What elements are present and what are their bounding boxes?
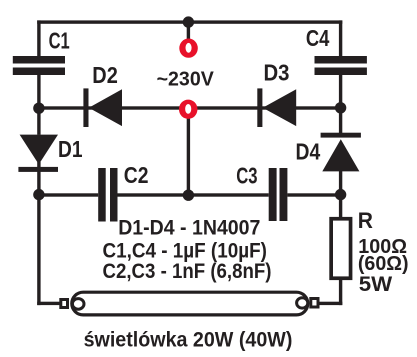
wire left rail lower segment: [37, 162, 40, 305]
node junction dot right middle: [335, 102, 346, 113]
svg-text:D3: D3: [264, 60, 290, 86]
wire row2 right segment: [287, 193, 342, 196]
wire middle row with D2 D3: [39, 106, 342, 109]
wire right rail middle segment: [339, 75, 342, 134]
svg-text:D1-D4 - 1N4007: D1-D4 - 1N4007: [118, 217, 260, 240]
svg-text:(60Ω): (60Ω): [358, 253, 409, 275]
wire middle column lower segment: [187, 109, 190, 197]
wire right rail D4 to resistor R: [339, 168, 342, 218]
wire right rail upper segment: [339, 20, 342, 56]
diode D2: [83, 88, 88, 127]
fluorescent tube body: [72, 292, 308, 315]
terminal lower 230V: [179, 100, 198, 119]
svg-text:świetlówka 20W (40W): świetlówka 20W (40W): [84, 329, 293, 352]
svg-text:C4: C4: [306, 25, 330, 51]
svg-text:C2,C3 - 1nF (6,8nF): C2,C3 - 1nF (6,8nF): [103, 260, 272, 283]
wire bottom left to lamp pin: [37, 302, 62, 305]
diode D1: [20, 135, 58, 165]
wire row2 center segment: [118, 193, 269, 196]
svg-text:D2: D2: [92, 62, 118, 88]
node junction dot center row2: [183, 190, 194, 201]
svg-text:5W: 5W: [359, 273, 393, 296]
lamp left pin: [61, 300, 68, 308]
diode D4: [321, 133, 361, 138]
svg-text:C1: C1: [49, 28, 70, 54]
lamp right pin: [311, 299, 318, 308]
node junction dot left middle: [33, 103, 44, 114]
resistor R body: [331, 219, 350, 279]
wire left rail middle segment: [37, 75, 40, 135]
svg-text:~230V: ~230V: [157, 68, 215, 90]
svg-text:C2: C2: [124, 162, 149, 188]
wire bottom right to lamp pin: [316, 302, 342, 305]
node junction dot left row2: [33, 189, 44, 200]
node junction dot top center: [183, 16, 194, 27]
lamp left electrode: [72, 299, 84, 310]
capacitor C4: [315, 56, 367, 64]
wire middle column top stub: [187, 22, 190, 40]
capacitor C3: [269, 168, 277, 221]
capacitor C1: [13, 56, 65, 64]
wire top rail: [37, 20, 342, 23]
node junction dot right row2: [335, 189, 346, 200]
svg-text:R: R: [358, 208, 373, 233]
svg-text:C3: C3: [236, 163, 257, 189]
svg-text:D1: D1: [58, 136, 83, 162]
diode D3: [257, 88, 262, 127]
wire row2 left segment: [39, 193, 98, 196]
terminal upper 230V: [179, 39, 198, 58]
capacitor C2: [98, 168, 106, 222]
wire left rail upper segment: [37, 20, 40, 56]
svg-text:D4: D4: [296, 138, 321, 164]
lamp right electrode: [297, 298, 308, 308]
wire right rail resistor to bottom corner: [339, 279, 342, 305]
